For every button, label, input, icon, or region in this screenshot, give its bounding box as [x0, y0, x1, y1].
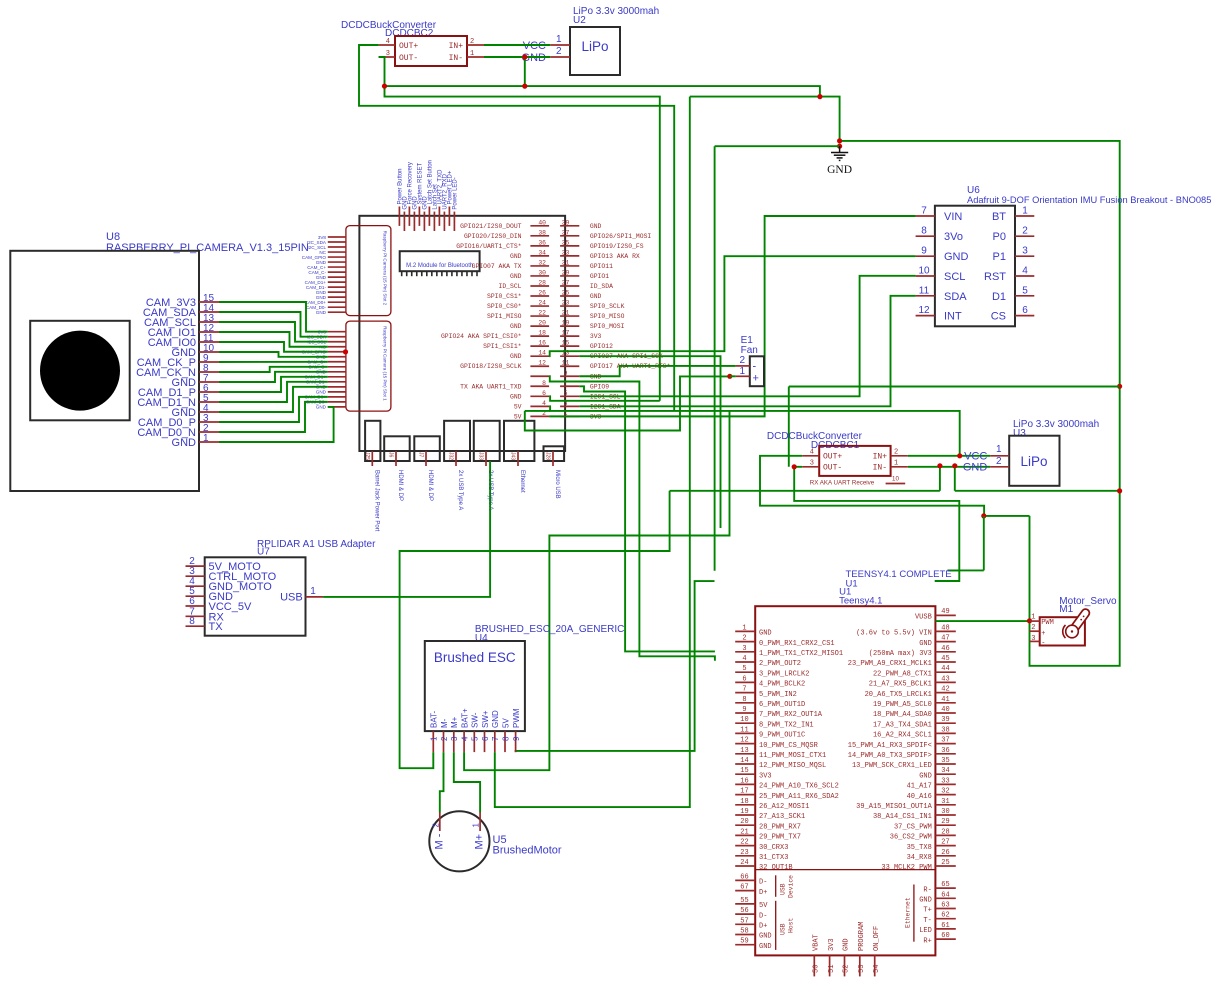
- svg-text:4: 4: [810, 449, 814, 457]
- Pi camera slot 1 box: [346, 321, 391, 411]
- svg-text:BRUSHED_ESC_20A_GENERIC: BRUSHED_ESC_20A_GENERIC: [475, 624, 625, 635]
- svg-text:36: 36: [941, 747, 949, 755]
- svg-text:9_PWM_OUT1C: 9_PWM_OUT1C: [759, 732, 805, 740]
- svg-text:25_PWM_A11_RX6_SDA2: 25_PWM_A11_RX6_SDA2: [759, 793, 839, 801]
- svg-text:OUT-: OUT-: [399, 54, 418, 63]
- svg-text:12: 12: [740, 737, 748, 745]
- svg-text:26: 26: [941, 849, 949, 857]
- svg-text:5: 5: [1022, 285, 1028, 296]
- wire camera pin 11 to slot1: [219, 342, 328, 352]
- U6 pin 10 SCL: [916, 275, 935, 277]
- svg-text:31_CTX3: 31_CTX3: [759, 854, 788, 862]
- svg-text:14: 14: [538, 350, 546, 357]
- wire Pi 3V3 row to U6 VIN: [549, 216, 916, 416]
- motor U5 pin 1 M+: [479, 813, 481, 832]
- Pi top pin Power LED+: [448, 207, 450, 226]
- svg-text:24: 24: [538, 300, 546, 307]
- Pi camera slot 1 pin CAM_D0+: [328, 396, 346, 398]
- wire camera pin 13 to slot1: [219, 322, 328, 342]
- svg-text:8: 8: [921, 226, 927, 237]
- camera U8 pin 4 GND: [199, 411, 219, 413]
- svg-text:Barrel Jack Power Port: Barrel Jack Power Port: [373, 470, 379, 532]
- svg-text:RST: RST: [984, 271, 1006, 283]
- junction at slot1 CAM_GPIO pin: [343, 349, 348, 354]
- svg-text:USB: USB: [280, 592, 303, 604]
- svg-text:OUT+: OUT+: [823, 453, 842, 462]
- junction at fan plus pin: [727, 374, 732, 379]
- Pi camera slot 2 pin GND: [328, 291, 346, 293]
- svg-text:61: 61: [941, 922, 949, 930]
- junction IN- B: [952, 463, 957, 468]
- svg-text:GND: GND: [510, 253, 522, 260]
- camera U8 pin 7 GND: [199, 381, 219, 383]
- svg-text:1: 1: [472, 823, 481, 828]
- wire GND column x=714 (dangling end): [714, 146, 716, 571]
- svg-text:5V: 5V: [759, 902, 768, 910]
- Teensy pin 60 R+: [935, 938, 955, 940]
- camera U8 pin 8 CAM_CK_N: [199, 371, 219, 373]
- svg-text:BrushedMotor: BrushedMotor: [493, 845, 562, 857]
- U6 pin 7 VIN: [916, 215, 935, 217]
- Teensy section divider: [755, 869, 935, 871]
- svg-text:3_PWM_LRCLK2: 3_PWM_LRCLK2: [759, 670, 809, 678]
- Teensy pin 61 LED: [935, 928, 955, 930]
- svg-text:SPI0_CS0*: SPI0_CS0*: [487, 303, 522, 310]
- svg-text:67: 67: [740, 884, 748, 892]
- U6 pin 9 GND: [916, 255, 935, 257]
- Teensy pin 9 7_PWM_RX2_OUT1A / pin 40 18_PWM_A4_SDA0: [735, 712, 755, 714]
- svg-text:45: 45: [941, 655, 949, 663]
- Teensy pin 51 3V3: [829, 955, 831, 976]
- Pi GPIO row 18/17 GPIO24 AKA SPI1_CSI0* | 3V3: [530, 335, 549, 337]
- svg-text:26: 26: [538, 290, 546, 297]
- svg-text:M+: M+: [474, 834, 486, 850]
- svg-text:BAT-: BAT-: [430, 710, 439, 728]
- svg-text:5: 5: [742, 665, 746, 673]
- svg-text:U3: U3: [1013, 428, 1026, 439]
- svg-text:17_A3_TX4_SDA1: 17_A3_TX4_SDA1: [873, 721, 932, 729]
- svg-text:GPIO21/I2S0_DOUT: GPIO21/I2S0_DOUT: [460, 223, 522, 230]
- servo M1 horn icon: [1063, 613, 1086, 638]
- svg-text:9: 9: [921, 246, 927, 257]
- svg-text:17: 17: [562, 330, 570, 337]
- Pi GPIO row 38/37 GPIO20/I2S0_DIN | GPIO26/SPI1_MOSI: [530, 235, 549, 237]
- Pi connector J33 2x USB Type A: [474, 421, 500, 461]
- Pi GPIO row 8/7 TX AKA UART1_TXD | GPIO9: [530, 385, 549, 387]
- svg-text:10_PWM_CS_MQSR: 10_PWM_CS_MQSR: [759, 742, 819, 750]
- svg-text:46: 46: [941, 645, 949, 653]
- Teensy pin 67 D+: [735, 890, 755, 892]
- U6 pin 4 RST: [1015, 275, 1034, 277]
- svg-text:TEENSY4.1 COMPLETE: TEENSY4.1 COMPLETE: [846, 569, 952, 580]
- U7 pin 5 GND: [186, 595, 205, 597]
- wire DCDCBC1 OUT- loop (dangling near label): [794, 467, 959, 571]
- svg-text:29_PWM_TX7: 29_PWM_TX7: [759, 834, 801, 842]
- Pi GPIO row 14/13 GND | GPIO27 AKA SPI1_SCK: [530, 355, 549, 357]
- Teensy pin 5 3_PWM_LRCLK2 / pin 44 22_PWM_A8_CTX1: [735, 671, 755, 673]
- svg-text:M+: M+: [450, 716, 459, 728]
- svg-text:5: 5: [471, 736, 480, 741]
- svg-text:2: 2: [470, 38, 474, 46]
- svg-text:GND: GND: [759, 933, 772, 941]
- Pi camera slot 2 pin CAM_GPIO: [328, 256, 346, 258]
- Pi top pin Latch Set: [433, 212, 435, 231]
- svg-text:Teensy4.1: Teensy4.1: [839, 596, 882, 607]
- servo M1 body: [1040, 617, 1085, 645]
- Pi connector J43 Ethernet: [504, 421, 534, 461]
- svg-text:VCC: VCC: [523, 40, 546, 52]
- svg-text:GPIO18/I2S0_SCLK: GPIO18/I2S0_SCLK: [460, 363, 522, 370]
- Teensy pin 52 GND: [844, 955, 846, 976]
- svg-text:D+: D+: [759, 923, 767, 931]
- svg-text:1: 1: [556, 34, 562, 45]
- Pi top pin GND: [413, 212, 415, 231]
- svg-text:D1: D1: [992, 291, 1006, 303]
- svg-text:42: 42: [941, 686, 949, 694]
- motor U5 body circle: [429, 811, 489, 871]
- svg-text:ID_SDA: ID_SDA: [590, 283, 613, 290]
- svg-text:6: 6: [542, 390, 546, 397]
- svg-text:7: 7: [921, 206, 927, 217]
- svg-text:1: 1: [430, 736, 439, 741]
- junction OUT+ node: [981, 513, 986, 518]
- svg-text:P1: P1: [993, 251, 1006, 263]
- wire OUT+ node south (to label, dangling): [983, 516, 985, 571]
- Teensy pin 62 T-: [935, 918, 955, 920]
- svg-text:30_CRX3: 30_CRX3: [759, 844, 788, 852]
- svg-text:62: 62: [941, 912, 949, 920]
- svg-text:J6: J6: [388, 452, 394, 458]
- svg-text:19: 19: [740, 808, 748, 816]
- Pi top pin Power LED-: [453, 212, 455, 231]
- Teensy pin 12 10_PWM_CS_MQSR / pin 37 15_PWM_A1_RX3_SPDIF<: [735, 743, 755, 745]
- Pi camera slot 2 pin GND: [328, 261, 346, 263]
- wire Teensy VUSB to servo PWM: [935, 620, 1029, 622]
- svg-text:GPIO26/SPI1_MOSI: GPIO26/SPI1_MOSI: [590, 233, 652, 240]
- Teensy pin 53 PROGRAM: [859, 955, 861, 976]
- svg-text:2: 2: [1031, 624, 1035, 632]
- svg-text:J25: J25: [364, 452, 370, 460]
- Teensy pin 17 25_PWM_A11_RX6_SDA2 / pin 32 40_A16: [735, 794, 755, 796]
- camera U8 pin 1 GND: [199, 441, 219, 443]
- Teensy pin 13 11_PWM_MOSI_CTX1 / pin 36 14_PWM_A0_TX3_SPDIF>: [735, 753, 755, 755]
- svg-text:USB: USB: [780, 883, 787, 895]
- svg-text:51: 51: [828, 965, 836, 973]
- svg-text:44: 44: [941, 665, 949, 673]
- svg-text:2_PWM_OUT2: 2_PWM_OUT2: [759, 660, 801, 668]
- U6 pin 2 P0: [1015, 235, 1034, 237]
- svg-text:J28: J28: [545, 452, 551, 460]
- Pi GPIO row 26/25 SPI0_CS1* | GND: [530, 295, 549, 297]
- Pi GPIO row 28/27 ID_SCL | ID_SDA: [530, 285, 549, 287]
- svg-text:41_A17: 41_A17: [907, 783, 932, 791]
- Teensy pin 8 6_PWM_OUT1D / pin 41 19_PWM_A5_SCL0: [735, 702, 755, 704]
- Teensy U1 body: [755, 606, 935, 955]
- wire DCDCBC1 IN- drop A: [939, 466, 941, 491]
- wire DCDCBC1 IN- to U3 GND: [908, 466, 990, 468]
- svg-text:20: 20: [538, 320, 546, 327]
- svg-text:60: 60: [941, 932, 949, 940]
- Pi top pin Latch Set Button: [428, 207, 430, 226]
- svg-text:6_PWM_OUT1D: 6_PWM_OUT1D: [759, 701, 805, 709]
- svg-text:GND: GND: [919, 897, 932, 905]
- svg-text:GPIO16/UART1_CTS*: GPIO16/UART1_CTS*: [456, 243, 521, 250]
- svg-text:29: 29: [562, 269, 570, 276]
- ESC U4 pin 5 SW-: [473, 731, 475, 752]
- wire ESC M- to motor: [440, 752, 444, 812]
- svg-text:8: 8: [542, 380, 546, 387]
- svg-text:38: 38: [941, 726, 949, 734]
- svg-text:TX AKA UART1_TXD: TX AKA UART1_TXD: [460, 383, 522, 390]
- camera U8 pin 15 CAM_3V3: [199, 301, 219, 303]
- svg-text:GPIO12: GPIO12: [590, 343, 613, 350]
- svg-text:29: 29: [941, 818, 949, 826]
- svg-text:GND: GND: [919, 640, 932, 648]
- svg-text:3: 3: [810, 460, 814, 468]
- svg-text:SPI0_MISO: SPI0_MISO: [590, 313, 625, 320]
- svg-text:16: 16: [538, 340, 546, 347]
- Pi camera slot 2 pin 3V8: [328, 236, 346, 238]
- svg-text:36: 36: [538, 239, 546, 246]
- U7 pin 6 VCC_5V: [186, 605, 205, 607]
- svg-text:28: 28: [941, 828, 949, 836]
- svg-text:38_A14_CS1_IN1: 38_A14_CS1_IN1: [873, 813, 932, 821]
- camera U8 outer body: [10, 251, 199, 491]
- wire camera pin 4 to slot1: [219, 387, 328, 412]
- wire Pi pin14 GND to U6 GND: [549, 256, 916, 356]
- servo M1 pin 3 -: [1030, 640, 1040, 642]
- Teensy pin 21 29_PWM_TX7 / pin 28 36_CS2_PWM: [735, 834, 755, 836]
- wire DCDCBC1 IN- drop B: [954, 466, 956, 491]
- svg-text:25: 25: [562, 290, 570, 297]
- svg-text:47: 47: [941, 635, 949, 643]
- Pi connector J28 Micro USB: [544, 446, 565, 461]
- svg-text:D+: D+: [759, 889, 767, 897]
- Pi camera slot 2 pin GND: [328, 296, 346, 298]
- junction OUT- / GND top: [382, 84, 387, 89]
- DCDCBC1 pin 4 OUT+: [802, 455, 819, 457]
- svg-text:31: 31: [941, 798, 949, 806]
- wire Pi pin9 GND to fan minus: [579, 366, 736, 376]
- svg-text:Raspberry Pi Camera (15 Pin) S: Raspberry Pi Camera (15 Pin) Slot 2: [383, 231, 388, 306]
- camera U8 pin 3 CAM_D0_P: [199, 421, 219, 423]
- DCDCBC1 pin 2 IN+: [891, 455, 908, 457]
- svg-text:SW-: SW-: [471, 712, 480, 728]
- Teensy pin 59 GND: [735, 944, 755, 946]
- svg-text:IN+: IN+: [449, 42, 464, 51]
- svg-text:20_A6_TX5_LRCLK1: 20_A6_TX5_LRCLK1: [865, 691, 932, 699]
- svg-text:ON_OFF: ON_OFF: [873, 926, 881, 951]
- wire 5V branch to ESC BAT+: [464, 411, 729, 770]
- svg-text:1: 1: [470, 50, 474, 58]
- svg-text:D-: D-: [759, 879, 767, 887]
- svg-text:24_PWM_A10_TX6_SCL2: 24_PWM_A10_TX6_SCL2: [759, 783, 839, 791]
- svg-text:31: 31: [562, 259, 570, 266]
- svg-text:3: 3: [1022, 246, 1028, 257]
- svg-text:3Vo: 3Vo: [944, 231, 963, 243]
- svg-text:25: 25: [941, 859, 949, 867]
- Pi top pin Force Recovery: [408, 207, 410, 226]
- svg-text:35: 35: [562, 239, 570, 246]
- wire Pi I2C1_SDA to U6 SDA: [579, 296, 915, 407]
- svg-text:SPI0_CS1*: SPI0_CS1*: [487, 293, 522, 300]
- Pi GPIO row 32/31 GPIO07 AKA TX | GPIO11: [530, 265, 549, 267]
- svg-text:3: 3: [1031, 635, 1035, 643]
- svg-text:14: 14: [740, 757, 748, 765]
- svg-text:2: 2: [996, 456, 1002, 467]
- svg-text:10: 10: [892, 476, 899, 483]
- camera U8 pin 9 CAM_CK_P: [199, 361, 219, 363]
- wire U2 GND branch down: [524, 57, 526, 86]
- svg-text:GND: GND: [491, 710, 500, 728]
- ESC U4 pin 3 M+: [453, 731, 455, 752]
- battery U2 body: [570, 27, 620, 75]
- svg-text:55: 55: [740, 897, 748, 905]
- Teensy pin 7 5_PWM_IN2 / pin 42 20_A6_TX5_LRCLK1: [735, 692, 755, 694]
- DCDCBC1 pin 1 IN-: [891, 466, 908, 468]
- svg-text:34_RX8: 34_RX8: [907, 854, 932, 862]
- svg-text:Brushed ESC: Brushed ESC: [434, 650, 516, 665]
- svg-text:1: 1: [1031, 614, 1035, 622]
- svg-text:8_PWM_TX2_IN1: 8_PWM_TX2_IN1: [759, 721, 814, 729]
- Pi GPIO row 4/3 5V | I2C1_SDA: [530, 405, 549, 407]
- svg-text:ID_SCL: ID_SCL: [498, 283, 521, 290]
- Pi camera slot 1 pin GND: [328, 391, 346, 393]
- Teensy pin 19 27_A13_SCK1 / pin 30 38_A14_CS1_IN1: [735, 814, 755, 816]
- svg-text:0_PWM_RX1_CRX2_CS1: 0_PWM_RX1_CRX2_CS1: [759, 640, 835, 648]
- U3 pin 1 VCC: [990, 455, 1009, 457]
- svg-text:J33: J33: [478, 452, 484, 460]
- Pi connector J6 HDMI & DP: [384, 436, 410, 461]
- svg-text:32: 32: [538, 259, 546, 266]
- svg-text:15_PWM_A1_RX3_SPDIF<: 15_PWM_A1_RX3_SPDIF<: [848, 742, 932, 750]
- svg-text:GND: GND: [590, 293, 602, 300]
- Teensy pin 1 GND / pin 48 (3.6v to 5.5v) VIN: [735, 630, 755, 632]
- svg-text:4_PWM_BCLK2: 4_PWM_BCLK2: [759, 681, 805, 689]
- svg-text:R-: R-: [923, 886, 931, 894]
- Teensy USB Device group: [775, 875, 777, 897]
- svg-text:37: 37: [941, 737, 949, 745]
- IMU U6 body: [935, 206, 1015, 327]
- svg-text:40: 40: [941, 706, 949, 714]
- svg-text:SCL: SCL: [944, 271, 965, 283]
- Teensy pin 23 31_CTX3 / pin 26 34_RX8: [735, 855, 755, 857]
- svg-text:20: 20: [740, 818, 748, 826]
- wire DCDCBC2 IN- to U2 GND: [484, 56, 550, 58]
- svg-text:Host: Host: [788, 917, 795, 933]
- svg-text:CS: CS: [991, 311, 1006, 323]
- svg-text:6: 6: [742, 675, 746, 683]
- Pi camera slot 1 pin GND: [328, 406, 346, 408]
- Pi GPIO row 34/33 GND | GPIO13 AKA RX: [530, 255, 549, 257]
- Pi camera slot 2 pin CAM_D1-: [328, 286, 346, 288]
- wire camera pin 7 to slot1: [219, 372, 328, 382]
- svg-text:1: 1: [996, 444, 1002, 455]
- camera U8 pin 2 CAM_D0_N: [199, 431, 219, 433]
- svg-text:J43: J43: [510, 452, 516, 460]
- camera U8 lens square: [30, 321, 130, 421]
- Raspberry Pi board body: [359, 216, 565, 451]
- svg-text:Ethernet: Ethernet: [519, 470, 525, 493]
- svg-text:27_A13_SCK1: 27_A13_SCK1: [759, 813, 805, 821]
- camera U8 pin 6 CAM_D1_P: [199, 391, 219, 393]
- svg-text:3V3: 3V3: [759, 772, 772, 780]
- svg-text:9: 9: [564, 370, 568, 377]
- svg-text:Micro USB: Micro USB: [554, 470, 560, 499]
- svg-text:OUT-: OUT-: [823, 464, 842, 473]
- U6 pin 8 3Vo: [916, 235, 935, 237]
- Pi top pin System RESET: [418, 207, 420, 226]
- Pi connector J25 Barrel Jack Power Port: [365, 421, 380, 461]
- wire GND rail to ESC GND pin: [495, 97, 690, 808]
- Pi GPIO row 40/39 GPIO21/I2S0_DOUT | GND: [530, 225, 549, 227]
- svg-text:2: 2: [739, 355, 745, 366]
- Pi camera slot 2 pin CAM_C-: [328, 271, 346, 273]
- wire GPIO27 SPI1_SCK down (dangling): [579, 356, 720, 528]
- svg-text:37: 37: [562, 229, 570, 236]
- svg-text:9: 9: [512, 736, 521, 741]
- Pi camera slot 1 pin 3V8: [328, 331, 346, 333]
- Teensy pin 65 R-: [935, 887, 955, 889]
- svg-text:23_PWM_A9_CRX1_MCLK1: 23_PWM_A9_CRX1_MCLK1: [848, 660, 932, 668]
- U7 pin 8 TX: [186, 625, 205, 627]
- svg-text:22: 22: [538, 310, 546, 317]
- svg-text:15: 15: [562, 340, 570, 347]
- svg-text:18_PWM_A4_SDA0: 18_PWM_A4_SDA0: [873, 711, 932, 719]
- wire ESC BAT- up to GND net: [400, 491, 670, 768]
- junction above GND symbol: [837, 138, 842, 143]
- svg-text:M -: M -: [433, 833, 445, 849]
- svg-text:GPIO1: GPIO1: [590, 273, 609, 280]
- wire GND symbol to left column: [715, 145, 840, 147]
- svg-text:GPIO24 AKA SPI1_CSI0*: GPIO24 AKA SPI1_CSI0*: [441, 333, 522, 340]
- svg-text:LiPo 3.3v 3000mah: LiPo 3.3v 3000mah: [1013, 419, 1099, 430]
- Teensy pin 11 9_PWM_OUT1C / pin 38 16_A2_RX4_SCL1: [735, 732, 755, 734]
- wire dangling under U1 label: [935, 570, 960, 581]
- svg-text:21: 21: [740, 828, 748, 836]
- svg-text:66: 66: [740, 873, 748, 881]
- svg-text:2x USB Type A: 2x USB Type A: [457, 470, 463, 510]
- Teensy pin 57 D+: [735, 923, 755, 925]
- Teensy pin 14 12_PWM_MISO_MQSL / pin 35 13_PWM_SCK_CRX1_LED: [735, 763, 755, 765]
- svg-text:RASPBERRY_PI_CAMERA_V1.3_15PIN: RASPBERRY_PI_CAMERA_V1.3_15PIN: [106, 242, 309, 254]
- Teensy pin 24 32_OUT1B / pin 25 33_MCLK2_PWM: [735, 865, 755, 867]
- svg-text:19: 19: [562, 320, 570, 327]
- svg-text:SPI1_MISO: SPI1_MISO: [487, 313, 522, 320]
- svg-text:4: 4: [542, 400, 546, 407]
- svg-text:23: 23: [740, 849, 748, 857]
- Teensy pin 20 28_PWM_RX7 / pin 29 37_CS_PWM: [735, 824, 755, 826]
- svg-text:U7: U7: [257, 547, 270, 558]
- svg-text:1: 1: [1022, 206, 1028, 217]
- svg-text:30: 30: [941, 808, 949, 816]
- Teensy pin 6 4_PWM_BCLK2 / pin 43 21_A7_RX5_BCLK1: [735, 681, 755, 683]
- svg-text:VUSB: VUSB: [915, 614, 932, 622]
- Pi camera slot 1 pin I2C_SCL: [328, 341, 346, 343]
- svg-text:R+: R+: [923, 937, 931, 945]
- ESC U4 pin 7 GND: [494, 731, 496, 752]
- svg-text:IN-: IN-: [873, 464, 887, 473]
- svg-text:27: 27: [941, 839, 949, 847]
- buck converter DCDCBC1 body: [819, 446, 890, 476]
- svg-text:GND: GND: [843, 938, 851, 951]
- svg-text:J32: J32: [448, 452, 454, 460]
- ESC U4 pin 9 PWM: [515, 731, 517, 752]
- svg-text:2: 2: [440, 736, 449, 741]
- svg-text:14_PWM_A0_TX3_SPDIF>: 14_PWM_A0_TX3_SPDIF>: [848, 752, 932, 760]
- svg-text:12: 12: [538, 360, 546, 367]
- camera U8 pin 14 CAM_SDA: [199, 311, 219, 313]
